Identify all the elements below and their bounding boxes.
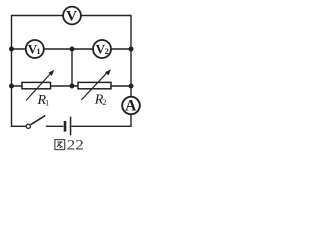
wire: left side <box>11 15 13 127</box>
resistor R1 arrow <box>26 70 54 101</box>
node: junction dot right resistor row <box>129 84 134 89</box>
svg-text:V: V <box>66 9 77 25</box>
node: junction dot middle of V1-V2 row <box>70 47 75 52</box>
wire: middle vertical (node b to node between R1,R2) <box>71 49 73 86</box>
resistor R1 (variable, box) <box>22 82 51 88</box>
svg-text:A: A <box>125 97 137 114</box>
svg-text:1: 1 <box>45 97 49 107</box>
node: junction dot between R1 and R2 <box>70 84 75 89</box>
switch S lever <box>31 116 46 125</box>
label R2 <box>94 93 107 108</box>
wire: battery to bottom right <box>72 125 132 127</box>
wire: switch to battery <box>46 125 64 127</box>
svg-text:2: 2 <box>105 46 109 56</box>
svg-text:22: 22 <box>67 138 84 153</box>
svg-text:2: 2 <box>102 97 106 107</box>
wire: right side <box>130 15 132 127</box>
node: junction dot right-V2 row <box>129 47 134 52</box>
wire: resistor row <box>12 85 132 87</box>
label R1 <box>37 93 50 108</box>
wire: bottom left to switch <box>12 125 27 127</box>
resistor R2 (variable, box) <box>78 82 111 88</box>
voltmeter V2 <box>93 40 111 58</box>
caption: character 图 <box>55 140 65 150</box>
wire: top side (node a to node d) <box>12 15 132 17</box>
node: junction dot left-V1 row <box>9 47 14 52</box>
ammeter A <box>122 97 140 115</box>
svg-text:1: 1 <box>36 46 40 56</box>
node: junction dot left resistor row <box>9 84 14 89</box>
wire: voltmeter row (V1-V2 row) <box>12 48 132 50</box>
resistor R2 arrow <box>81 69 111 100</box>
voltmeter V1 <box>26 40 44 58</box>
battery negative plate (short thick) <box>64 121 67 132</box>
voltmeter V <box>63 7 81 25</box>
switch S pivot <box>26 124 30 128</box>
battery positive plate (long thin) <box>70 117 72 136</box>
